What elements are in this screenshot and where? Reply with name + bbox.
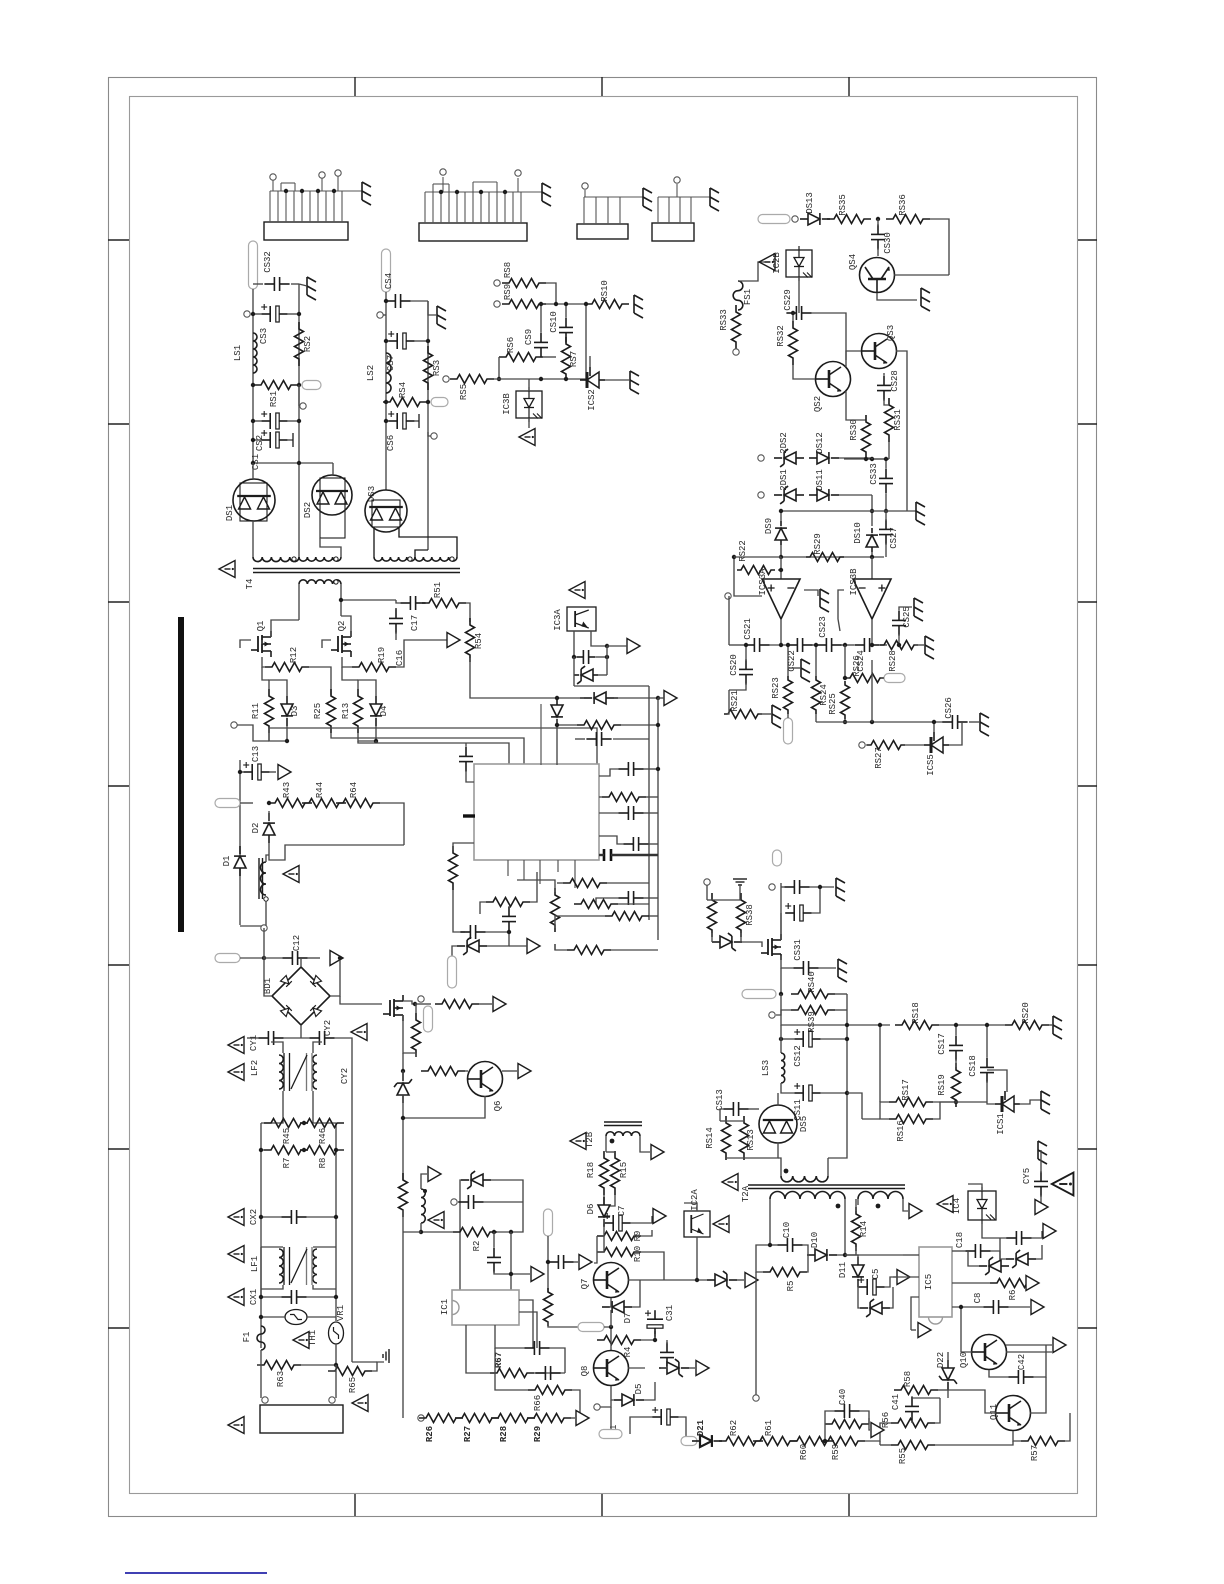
off-page connector arrow (897, 1270, 910, 1285)
transistor Q11 (996, 1396, 1031, 1431)
wire (845, 1255, 858, 1264)
resistor R59 (821, 1437, 865, 1446)
wire (707, 899, 712, 901)
wire (780, 511, 782, 521)
wire (787, 714, 789, 718)
wire (599, 769, 619, 776)
terminal pad (773, 850, 782, 866)
electrolytic capacitor CS2 (261, 420, 270, 422)
wire (497, 1202, 523, 1232)
electrolytic capacitor CS11 (794, 1092, 803, 1094)
resistor RS5 (450, 375, 494, 384)
wire DS1 to T4 (252, 521, 254, 557)
svg-text:RS35: RS35 (838, 194, 848, 216)
svg-text:ICS3A: ICS3A (758, 568, 768, 596)
dual diode DS2 package outline (320, 478, 345, 538)
svg-text:C10: C10 (782, 1222, 792, 1238)
resistor RS27 (867, 741, 905, 750)
resistor R45 (264, 1119, 308, 1128)
wire (986, 1025, 988, 1057)
wire (288, 439, 293, 441)
diode (1016, 1253, 1028, 1265)
ground (1041, 1091, 1050, 1114)
safety warning symbol (219, 561, 235, 578)
svg-text:R54: R54 (474, 633, 484, 649)
resistor RS23 (784, 676, 793, 714)
resistor RS17 (889, 1098, 933, 1107)
wire (641, 1230, 652, 1236)
wire (330, 958, 340, 996)
safety warning symbol (351, 1024, 367, 1041)
wire (252, 463, 254, 479)
svg-text:RS6: RS6 (506, 337, 516, 353)
wire (990, 1251, 1000, 1266)
wire (781, 1038, 794, 1040)
wire (540, 357, 542, 358)
wire (696, 1237, 698, 1280)
capacitor C17 (400, 602, 410, 604)
wire (264, 957, 283, 959)
dual diode DS3 (365, 490, 407, 532)
resistor RS32 (789, 321, 798, 365)
svg-text:DS9: DS9 (764, 518, 774, 534)
off-page connector arrow (745, 1273, 758, 1288)
svg-text:Q7: Q7 (580, 1279, 590, 1290)
wire (415, 1004, 417, 1013)
wire (403, 1015, 416, 1053)
wire (935, 1398, 940, 1423)
ground (801, 659, 810, 682)
wire (776, 1010, 791, 1015)
svg-text:FS1: FS1 (743, 289, 753, 305)
IC IC5 (919, 1247, 952, 1317)
wire (780, 968, 782, 994)
svg-text:D7: D7 (623, 1313, 633, 1324)
footer link line (125, 1572, 267, 1574)
svg-text:T2B: T2B (585, 1131, 595, 1148)
wire (807, 1255, 808, 1272)
wire (780, 883, 782, 940)
svg-text:D1: D1 (222, 856, 232, 867)
wire (885, 543, 887, 557)
wire (1040, 1150, 1042, 1173)
wire (781, 1083, 794, 1093)
wire (899, 607, 912, 610)
resistor R44 (302, 799, 346, 808)
wire (804, 590, 818, 596)
transformer T4 core (253, 568, 460, 570)
wire (877, 248, 879, 256)
wire (835, 993, 847, 995)
electrolytic capacitor C5 (858, 1286, 867, 1288)
wire (240, 771, 243, 773)
wire (911, 1397, 913, 1399)
wire (955, 1059, 957, 1067)
wire (546, 283, 556, 304)
capacitor (576, 656, 583, 658)
wire (309, 667, 331, 695)
wire (342, 667, 358, 680)
svg-text:R27: R27 (463, 1426, 473, 1442)
capacitor CS29 (786, 312, 796, 314)
svg-text:LF2: LF2 (250, 1060, 260, 1076)
svg-text:IC1: IC1 (440, 1299, 450, 1315)
svg-text:CX1: CX1 (249, 1289, 259, 1305)
wire (906, 376, 908, 511)
wire (301, 1344, 336, 1365)
wire (815, 645, 817, 676)
safety warning symbol (570, 1133, 586, 1150)
electrolytic capacitor CS3 (261, 313, 270, 315)
wire (1000, 1238, 1006, 1259)
wire winding bottom (240, 901, 266, 926)
wire (271, 1042, 283, 1053)
diode (594, 692, 606, 704)
wire (589, 356, 591, 367)
svg-text:RS8: RS8 (503, 262, 513, 278)
wire (403, 1001, 415, 1004)
connector block (652, 223, 694, 241)
svg-text:C7: C7 (617, 1206, 627, 1217)
wire (607, 645, 627, 647)
wire (261, 1316, 285, 1318)
resistor RS38 (737, 893, 746, 937)
wire (604, 1195, 615, 1206)
ground (643, 188, 652, 211)
inductor winding (858, 1192, 903, 1200)
svg-text:2DS1: 2DS1 (779, 469, 789, 491)
wire (270, 771, 276, 773)
svg-text:R26: R26 (425, 1426, 435, 1442)
capacitor CS9 (540, 332, 542, 342)
capacitor (618, 897, 628, 899)
wire (841, 644, 854, 646)
capacitor CY1 (258, 1037, 268, 1039)
wire (726, 1120, 744, 1122)
wire (571, 1417, 575, 1419)
transformer T2B core (604, 1121, 642, 1123)
wire (269, 680, 287, 696)
wire QS3 collector (896, 351, 907, 376)
inductor winding (313, 1249, 317, 1283)
wire (877, 293, 917, 300)
resistor RS2 (295, 322, 304, 366)
wire (726, 1157, 744, 1159)
resistor R19 (352, 663, 396, 672)
inductor winding (386, 353, 391, 393)
capacitor CS20 (745, 659, 747, 669)
wire (857, 1199, 859, 1205)
wire (947, 1352, 949, 1367)
diode DS13 (808, 213, 820, 225)
svg-text:CS28: CS28 (890, 370, 900, 392)
diode D10 (815, 1249, 827, 1261)
wire (358, 726, 376, 741)
wire (720, 1120, 726, 1122)
svg-text:C18: C18 (955, 1232, 965, 1248)
wire (530, 872, 537, 902)
wire Q2 gate (322, 640, 331, 648)
capacitor CY5 (1040, 1171, 1042, 1181)
resistor RS24 (812, 676, 821, 714)
wire (453, 890, 465, 932)
wire (884, 399, 889, 405)
terminal pad (884, 674, 905, 683)
bridge rectifier BD1 (272, 967, 330, 1025)
svg-text:CY2: CY2 (323, 1020, 333, 1036)
resistor R25 (327, 689, 336, 733)
wire (869, 1418, 870, 1430)
wire (898, 634, 900, 645)
off-page connector arrow (576, 1411, 589, 1426)
wire (609, 1298, 611, 1307)
capacitor CS26 (942, 721, 952, 723)
ground (914, 598, 923, 621)
wire (261, 1149, 264, 1151)
resistor (577, 721, 621, 730)
transistor QS2 (816, 362, 851, 397)
wire (1013, 1431, 1021, 1441)
resistor (740, 1116, 749, 1160)
capacitor (666, 1342, 668, 1352)
wire (257, 1350, 261, 1365)
wire (573, 657, 575, 686)
svg-text:C17: C17 (410, 615, 420, 631)
resistor R9 (597, 1232, 641, 1241)
diode (715, 1274, 727, 1286)
svg-text:CS32: CS32 (263, 251, 273, 273)
off-page connector arrow (493, 997, 506, 1012)
safety warning symbol (352, 1395, 368, 1412)
wire RS32 to QS2 base (793, 365, 815, 379)
wire (540, 697, 584, 699)
wire (734, 570, 762, 596)
wire (630, 1417, 653, 1434)
inductor winding (253, 333, 257, 373)
wire (1065, 1413, 1070, 1441)
resistor RS16 (889, 1115, 933, 1124)
capacitor CS30 (877, 224, 879, 234)
wire (375, 741, 377, 743)
wire (298, 385, 300, 406)
wire (493, 1232, 495, 1247)
wire (543, 356, 556, 358)
svg-text:CS31: CS31 (793, 939, 803, 961)
optocoupler LED IC2B (786, 250, 812, 277)
wire (930, 219, 949, 275)
wire (605, 1136, 607, 1152)
wire (711, 933, 713, 942)
wire (654, 1334, 656, 1340)
wire (253, 439, 261, 441)
IC (474, 764, 599, 860)
resistor R64 (336, 799, 380, 808)
wire IC1 pin (519, 1300, 533, 1348)
electrolytic capacitor C7 (604, 1222, 613, 1224)
resistor RS8 (502, 279, 546, 288)
svg-text:R2: R2 (472, 1241, 482, 1252)
wire (903, 1199, 908, 1211)
svg-text:RS26: RS26 (852, 655, 862, 677)
wire (649, 915, 658, 917)
wire (885, 459, 887, 468)
ground (820, 589, 829, 612)
svg-text:R11: R11 (251, 703, 261, 719)
safety warning symbol (293, 1332, 309, 1349)
wire (1030, 1377, 1046, 1413)
wire (335, 1365, 337, 1398)
off-page connector arrow (278, 765, 291, 780)
resistor R58 (894, 1386, 938, 1395)
svg-text:RS17: RS17 (901, 1079, 911, 1101)
connector block (419, 223, 527, 241)
svg-text:RS28: RS28 (888, 650, 898, 672)
svg-text:R59: R59 (831, 1444, 841, 1460)
svg-text:DS1: DS1 (225, 505, 235, 521)
svg-text:RS32: RS32 (776, 325, 786, 347)
wire (780, 545, 782, 557)
wire R64 right (380, 803, 404, 845)
ground (980, 713, 989, 736)
wire (905, 744, 924, 746)
wire (336, 1149, 344, 1151)
wire (613, 738, 649, 740)
safety warning symbol (937, 1196, 953, 1213)
capacitor (524, 1347, 534, 1349)
wire (880, 1444, 891, 1446)
wire (835, 1009, 847, 1011)
electrolytic capacitor CS1 (261, 439, 270, 441)
wire (261, 1091, 283, 1123)
svg-text:RS9: RS9 (503, 284, 513, 300)
wire (261, 1285, 283, 1289)
off-page connector arrow (1053, 1338, 1066, 1353)
capacitor CS22 (787, 644, 797, 646)
svg-text:R28: R28 (499, 1426, 509, 1442)
terminal pad (578, 1323, 604, 1332)
svg-text:R65: R65 (348, 1377, 358, 1393)
wire (621, 724, 658, 726)
wire (491, 1180, 523, 1202)
svg-text:DS5: DS5 (799, 1116, 809, 1132)
wire (1006, 1351, 1052, 1353)
wire (313, 1246, 336, 1248)
resistor RS29 (806, 553, 844, 562)
wire (821, 1038, 847, 1040)
safety warning symbol (722, 1174, 738, 1191)
resistor RS30 (862, 415, 871, 459)
wire (658, 697, 664, 699)
wire (1035, 1195, 1041, 1207)
wire (342, 663, 352, 667)
svg-text:CS2: CS2 (255, 435, 265, 451)
capacitor CS28 (883, 375, 885, 385)
terminal pad (382, 249, 391, 292)
wire (968, 1251, 979, 1266)
wire (253, 313, 261, 315)
svg-text:R7: R7 (282, 1158, 292, 1169)
resistor (605, 912, 649, 921)
off-page connector arrow (527, 939, 540, 954)
resistor (551, 888, 560, 932)
capacitor (586, 738, 596, 740)
wire (748, 1108, 759, 1110)
wire RS3 rail to T4 (427, 432, 429, 550)
ground (634, 295, 643, 318)
electrolytic capacitor CS6 (388, 420, 397, 422)
capacitor C18 (965, 1250, 975, 1252)
wire (809, 886, 834, 888)
resistor RS36 (886, 215, 930, 224)
wire (299, 284, 307, 286)
optocoupler IC2A (684, 1211, 710, 1237)
off-page connector arrow (579, 1255, 592, 1270)
resistor RS7 (562, 337, 571, 381)
safety warning symbol (228, 1246, 244, 1263)
svg-text:R13: R13 (341, 703, 351, 719)
wire LS2 rail (385, 292, 387, 490)
wire (755, 1272, 757, 1395)
resistor RS35 (827, 215, 871, 224)
svg-text:RS14: RS14 (705, 1127, 715, 1149)
svg-text:R56: R56 (881, 1412, 891, 1428)
svg-text:ICS1: ICS1 (996, 1113, 1006, 1135)
capacitor C42 (1008, 1376, 1018, 1378)
resistor R62 (719, 1437, 763, 1446)
wire (300, 1025, 302, 1038)
wire (594, 1252, 597, 1263)
resistor R46 (300, 1119, 344, 1128)
capacitor CY2 (309, 1037, 319, 1039)
wire (264, 975, 272, 996)
wire (792, 313, 794, 321)
svg-text:RS29: RS29 (813, 533, 823, 555)
svg-text:RS23: RS23 (771, 677, 781, 699)
svg-text:IC3A: IC3A (553, 609, 563, 631)
off-page connector arrow (627, 639, 640, 654)
wire (729, 644, 744, 646)
wire (485, 931, 509, 933)
svg-text:2DS2: 2DS2 (779, 432, 789, 454)
wire (679, 1417, 686, 1441)
wire (373, 527, 375, 557)
wire T4 primary to Q1 (298, 584, 300, 620)
wire (968, 1184, 982, 1191)
diode DS9 (775, 528, 787, 540)
svg-text:CS4: CS4 (384, 273, 394, 289)
wire (260, 1365, 262, 1398)
terminal pad (215, 954, 240, 963)
inductor winding (299, 557, 341, 561)
wire (729, 683, 746, 690)
wire (1036, 1245, 1042, 1259)
wire (818, 967, 836, 969)
resistor R14 (852, 1207, 861, 1251)
wire (269, 726, 287, 741)
wire (858, 1287, 860, 1308)
wire (498, 357, 500, 379)
wire (879, 1441, 881, 1445)
svg-text:QS4: QS4 (848, 254, 858, 270)
wire (415, 420, 419, 422)
ground (1038, 1141, 1047, 1164)
resistor R12 (265, 663, 309, 672)
ground (772, 705, 781, 728)
wire IC1 pin (519, 1312, 537, 1348)
MOSFET Q1 (251, 631, 271, 657)
wire (261, 640, 263, 644)
terminal pad (544, 1209, 553, 1236)
